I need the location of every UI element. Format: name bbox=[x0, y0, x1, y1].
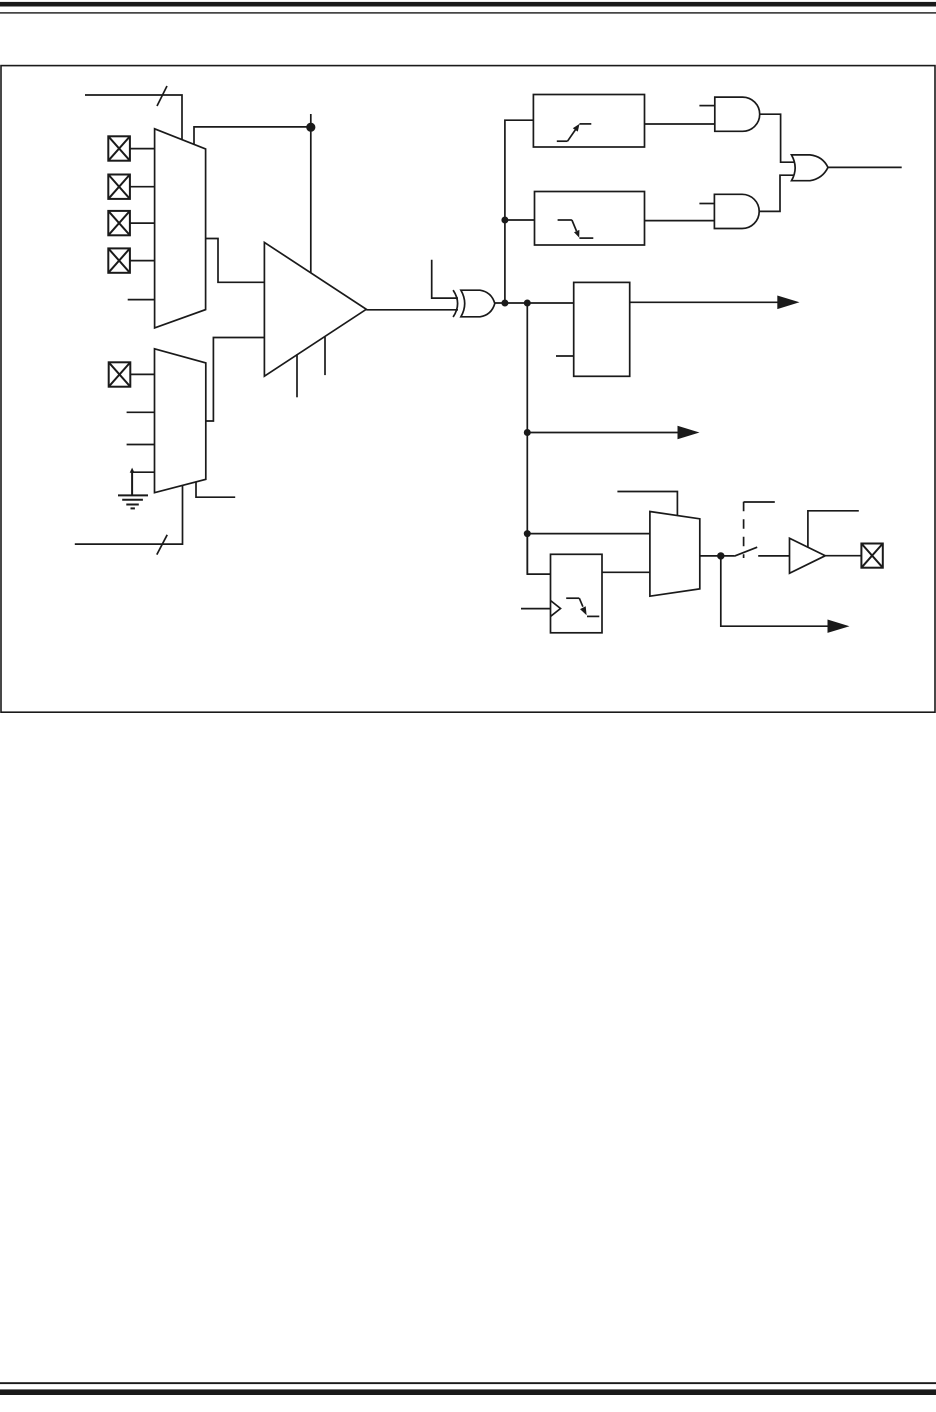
pin X-box C1IN0 bbox=[108, 136, 130, 160]
switch SW1 dashed control line bbox=[743, 502, 745, 558]
wire: stub above node A bbox=[310, 114, 312, 127]
comparator power pin stub 1 bbox=[296, 354, 298, 397]
wire: buffer enable bbox=[808, 511, 859, 548]
wire: rising detector output to AND1 bbox=[645, 123, 715, 125]
wire: OR output bbox=[828, 166, 902, 168]
bus-width slash on MUX1 select bbox=[157, 86, 167, 106]
wire: MUX1 tap up to node A bbox=[194, 127, 311, 144]
box: falling edge detector bbox=[535, 192, 645, 246]
wire: C1IN3 to MUX1 bbox=[130, 260, 155, 262]
header rule thin bbox=[0, 12, 936, 13]
node C (junction dot) bbox=[524, 300, 531, 307]
wire: MUX3 select bbox=[617, 492, 677, 516]
wire: C1IN0 to MUX1 bbox=[130, 148, 155, 150]
box: output data flip-flop bbox=[574, 282, 630, 376]
wire: C1IN1 to MUX1 bbox=[130, 186, 155, 188]
wire: AND1 top input stub bbox=[699, 105, 714, 107]
wire: C1IN2 to MUX1 bbox=[130, 222, 155, 224]
node: rising/falling tee dot bbox=[501, 217, 508, 224]
or gate U5 bbox=[792, 155, 829, 181]
latch clock triangle bbox=[551, 601, 561, 617]
arrow: flip-flop output to bus bbox=[777, 296, 799, 310]
wire: node C down the trunk bbox=[526, 303, 528, 574]
figure frame bbox=[1, 66, 935, 713]
pin X-box C1IN3 bbox=[108, 248, 130, 272]
wire: latch output to MUX3 input 2 bbox=[602, 571, 650, 573]
latch U6 (sync latch) bbox=[551, 554, 603, 633]
and gate U3 bbox=[715, 97, 760, 131]
wire: tee to falling edge detector bbox=[505, 219, 535, 221]
wire: falling detector output to AND2 bbox=[645, 220, 715, 222]
wire: switch to buffer bbox=[758, 555, 789, 557]
wire: flip-flop lower-left stub bbox=[556, 355, 574, 357]
falling edge symbol bbox=[558, 220, 594, 238]
pin X-box C1IN2 bbox=[108, 211, 130, 235]
node E (junction dot) bbox=[524, 530, 531, 537]
node B (junction dot) bbox=[501, 300, 508, 307]
xor gate input arc bbox=[453, 290, 458, 317]
pin X-box C1OUT bbox=[861, 544, 882, 568]
header rule thick bbox=[0, 2, 936, 7]
wire: MUX3 output to node F bbox=[700, 555, 734, 557]
wire: trunk to latch D input bbox=[527, 534, 550, 575]
buffer U7 (output driver) bbox=[790, 538, 826, 573]
wire: AND2 top input stub bbox=[699, 203, 714, 205]
rising edge symbol bbox=[557, 124, 592, 141]
wire: reference input stub to MUX1 bbox=[128, 299, 155, 301]
ground bbox=[118, 472, 148, 508]
wire: MUX2 input stub 3 bbox=[127, 444, 155, 446]
xor gate U2 bbox=[461, 290, 495, 317]
wire: node B up to edge detectors bbox=[505, 120, 534, 303]
box: rising edge detector bbox=[533, 95, 644, 148]
wire: XOR output to flip-flop bbox=[495, 302, 574, 304]
wire: switch control top bbox=[744, 501, 775, 503]
wire: buffer output to pin bbox=[825, 555, 861, 557]
wire: node A down to comparator top edge bbox=[310, 127, 312, 273]
wire: MUX2 select bus bbox=[75, 486, 183, 545]
footer rule thick bbox=[0, 1389, 936, 1395]
op-amp U1 (comparator) bbox=[264, 242, 366, 376]
node D (junction dot) bbox=[524, 429, 531, 436]
node A (junction dot) bbox=[306, 123, 315, 132]
wire: node F down to sync output bbox=[721, 556, 829, 626]
wire: MUX2 output to comparator - input bbox=[206, 338, 265, 422]
mux MUX2 (inverting input select) bbox=[155, 349, 206, 493]
wire: async output line bbox=[527, 432, 678, 434]
footer rule thin bbox=[0, 1382, 936, 1384]
wire: node E to MUX3 input 1 bbox=[527, 533, 650, 535]
wire: MUX1 select bus horizontal bbox=[85, 95, 182, 140]
wire: AND1 output to OR bbox=[760, 114, 794, 162]
wire: ground to MUX2 bbox=[132, 471, 154, 473]
comparator power pin stub 2 bbox=[324, 337, 326, 375]
wire: MUX1 output to comparator + input bbox=[206, 239, 265, 283]
pin X-box C1IN1 bbox=[108, 175, 130, 199]
latch falling edge symbol bbox=[566, 598, 599, 616]
mux MUX1 (comparator input select) bbox=[155, 129, 206, 328]
wire: AND2 output to OR bbox=[759, 175, 794, 211]
pin X-box C1IN- bbox=[109, 362, 131, 386]
wire: XOR polarity input stub bbox=[432, 260, 458, 298]
wire: flip-flop output bbox=[630, 301, 779, 303]
wire: MUX2 input stub 2 bbox=[127, 411, 155, 413]
mux MUX3 (output select) bbox=[650, 512, 700, 597]
switch SW1 blade (output enable) bbox=[734, 547, 757, 556]
arrow: async output bbox=[678, 426, 700, 439]
node F (junction dot) bbox=[717, 552, 724, 559]
ground tick arrow bbox=[130, 468, 135, 473]
wire: C1IN- to MUX2 bbox=[130, 373, 154, 375]
wire: latch clock input stub bbox=[521, 608, 551, 610]
and gate U4 bbox=[714, 194, 759, 228]
wire: MUX2 output stub lower bbox=[196, 482, 235, 497]
bus-width slash on MUX2 select bbox=[157, 535, 167, 555]
arrow: sync output bbox=[828, 620, 850, 633]
wire: comparator output to XOR bbox=[366, 309, 458, 311]
